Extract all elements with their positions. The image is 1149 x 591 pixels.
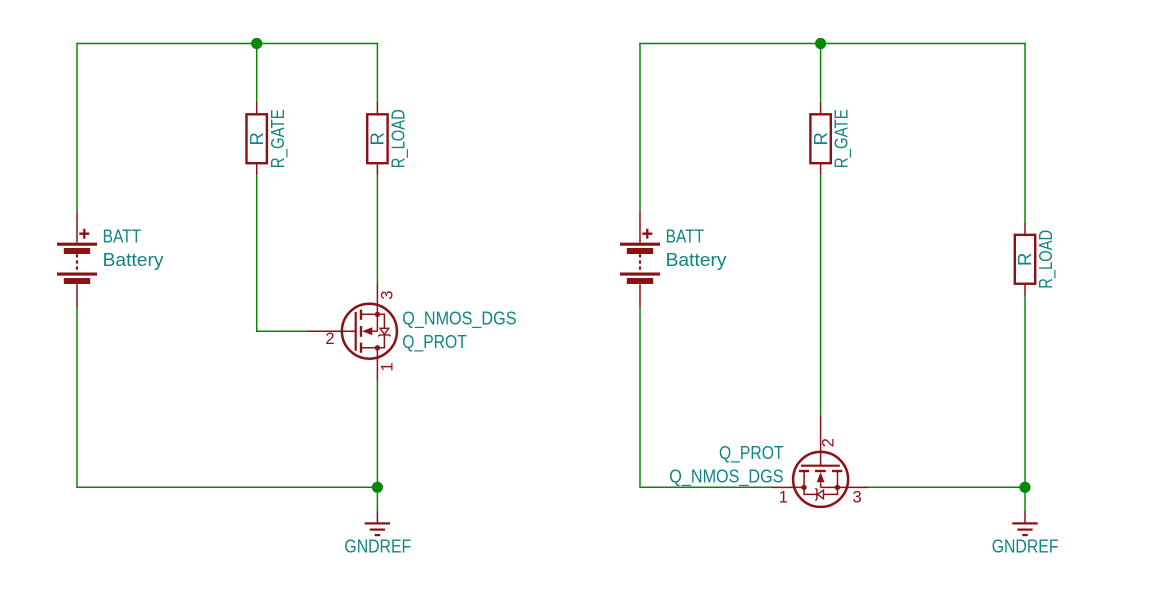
svg-text:Battery: Battery: [666, 249, 728, 270]
wire ground stub right: [1024, 487, 1026, 511]
wire R_GATE drop: [256, 43, 258, 103]
svg-text:Q_PROT: Q_PROT: [402, 331, 467, 353]
svg-text:3: 3: [379, 291, 397, 300]
svg-text:1: 1: [779, 489, 788, 507]
svg-text:R: R: [246, 132, 267, 145]
svg-text:R: R: [1014, 253, 1035, 266]
svg-text:R: R: [367, 132, 388, 145]
wire battery top branch: [76, 43, 78, 210]
wire R_LOAD drop: [376, 43, 378, 103]
svg-text:BATT: BATT: [666, 226, 705, 247]
wire battery to bottom rail right: [639, 307, 641, 488]
svg-text:2: 2: [819, 438, 837, 447]
svg-text:R_GATE: R_GATE: [267, 109, 289, 168]
resistor R_GATE left: [247, 102, 267, 175]
svg-text:Q_NMOS_DGS: Q_NMOS_DGS: [402, 308, 516, 330]
svg-text:1: 1: [379, 362, 397, 371]
resistor R_LOAD left: [367, 102, 387, 175]
svg-text:Q_PROT: Q_PROT: [719, 442, 784, 464]
svg-text:R: R: [810, 132, 831, 145]
svg-text:3: 3: [853, 489, 862, 507]
wire battery to bottom rail: [76, 307, 78, 488]
battery BT right: [620, 210, 660, 307]
svg-text:R_LOAD: R_LOAD: [388, 109, 410, 168]
junction bottom left: [372, 482, 383, 493]
svg-text:BATT: BATT: [103, 226, 142, 247]
transistor Q2 right (rotated 90): [772, 416, 868, 507]
battery BT left: [57, 210, 97, 307]
svg-text:2: 2: [325, 330, 334, 348]
junction bottom right: [1019, 482, 1030, 493]
svg-text:Battery: Battery: [103, 249, 165, 270]
transistor Q1 left: [306, 283, 397, 379]
wire R_LOAD drop right: [1024, 43, 1026, 223]
wire Q1 source to bottom rail: [376, 379, 378, 487]
svg-text:R_GATE: R_GATE: [831, 109, 853, 168]
wire ground stub left: [376, 487, 378, 511]
junction top left: [251, 38, 262, 49]
svg-text:Q_NMOS_DGS: Q_NMOS_DGS: [669, 466, 783, 488]
resistor R_LOAD right: [1015, 223, 1035, 296]
wire top rail left: [76, 43, 378, 45]
junction top right: [815, 38, 826, 49]
wire R_LOAD to Q1 drain: [376, 175, 378, 284]
wire battery top branch right: [639, 43, 641, 210]
svg-text:GNDREF: GNDREF: [992, 536, 1059, 557]
ground GNDREF left: [365, 511, 390, 535]
wire top rail right: [639, 43, 1026, 45]
wire R_GATE to gate right: [820, 175, 822, 415]
ground GNDREF right: [1012, 511, 1037, 535]
wire bottom rail right east: [864, 486, 1025, 488]
wire R_GATE drop right: [820, 43, 822, 103]
resistor R_GATE right: [810, 102, 830, 175]
wire R_LOAD to bottom rail right: [1024, 296, 1026, 488]
wire R_GATE to gate: [257, 175, 306, 331]
svg-text:GNDREF: GNDREF: [344, 536, 411, 557]
wire bottom rail right west: [639, 486, 773, 488]
svg-text:R_LOAD: R_LOAD: [1035, 230, 1057, 289]
wire bottom rail left: [76, 486, 377, 488]
